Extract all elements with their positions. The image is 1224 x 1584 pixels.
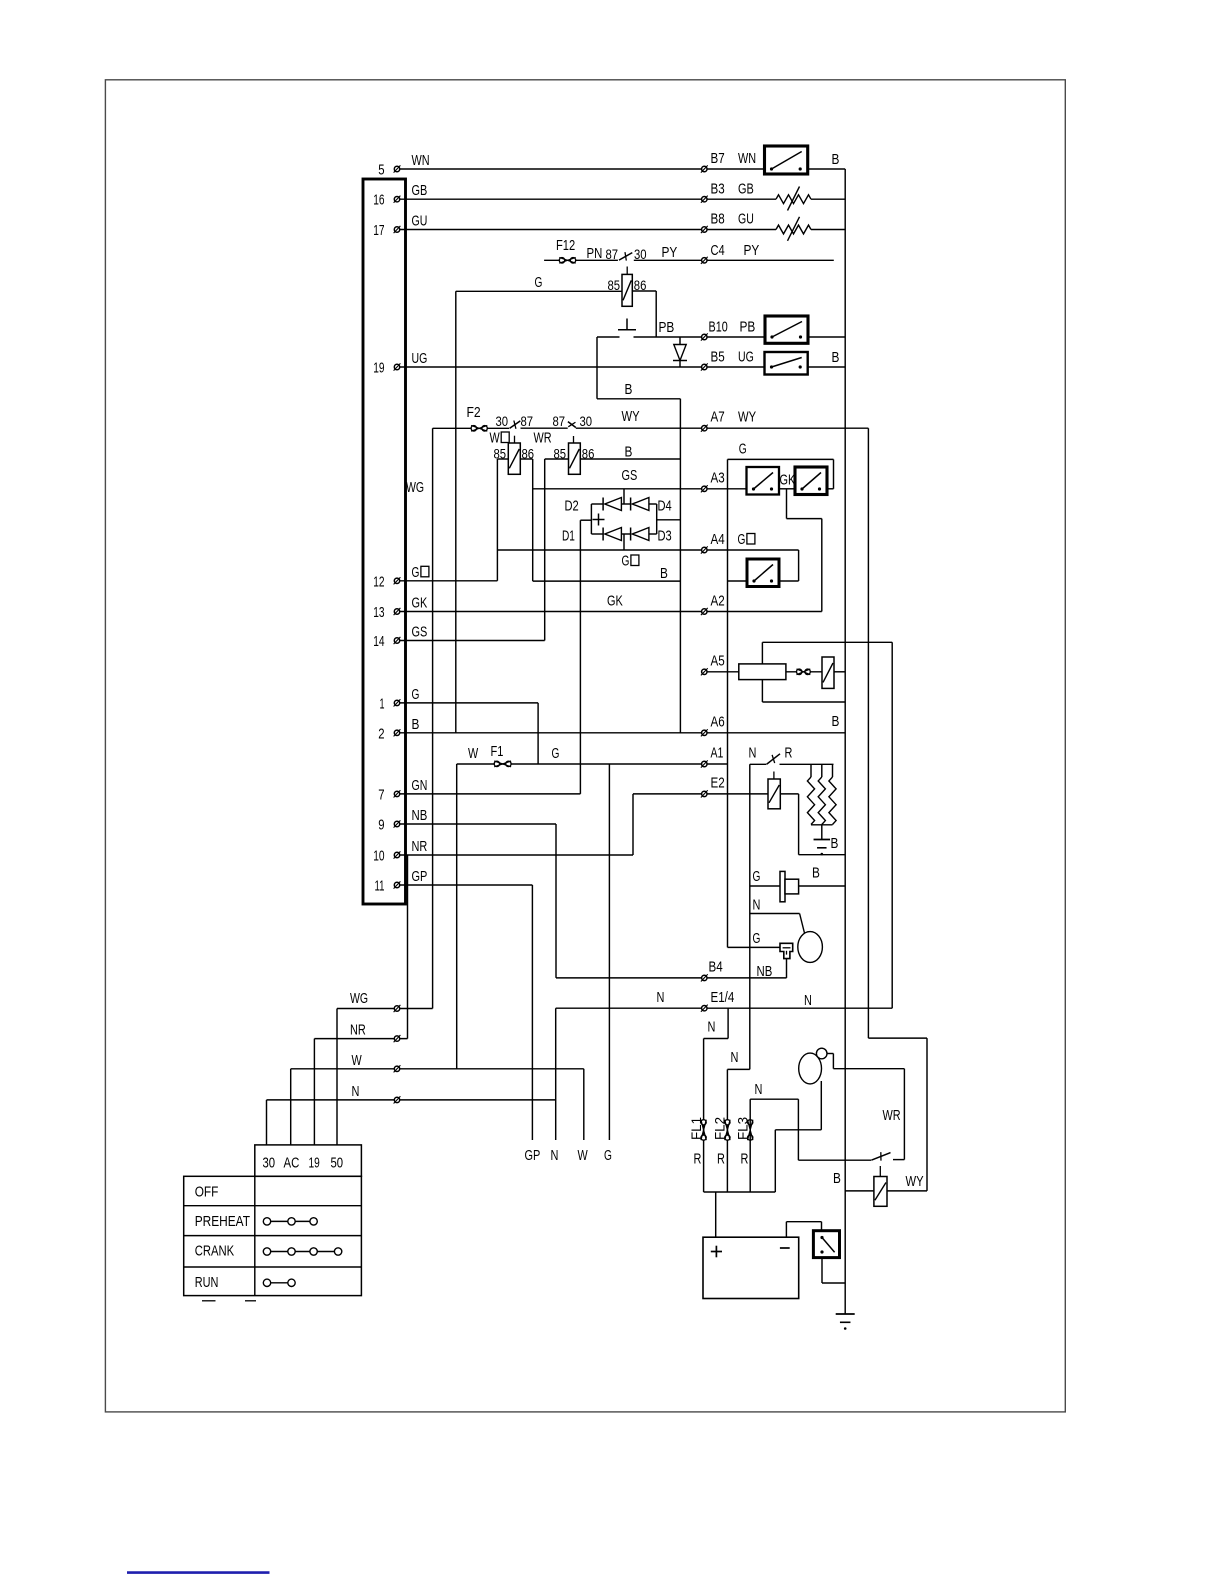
svg-text:W: W <box>352 1052 363 1069</box>
wire WG vertical F2 to key switch <box>406 428 433 1008</box>
svg-text:30: 30 <box>496 414 509 429</box>
svg-text:R: R <box>741 1151 749 1168</box>
svg-text:B4: B4 <box>709 959 723 976</box>
svg-text:GB: GB <box>412 182 428 199</box>
pin W bottom <box>394 1065 401 1072</box>
terminal B8 with label GU <box>701 211 754 234</box>
wire fuse bottom bus <box>704 1191 776 1193</box>
svg-text:CRANK: CRANK <box>195 1243 235 1260</box>
svg-text:PY: PY <box>662 244 678 261</box>
wire B4 row <box>556 977 787 979</box>
svg-text:R: R <box>785 745 793 762</box>
wire GP pin11 down to bottom <box>397 885 532 1140</box>
svg-text:G: G <box>738 531 746 548</box>
label GK between gauges <box>780 472 796 489</box>
svg-text:GK: GK <box>412 595 428 612</box>
svg-text:D3: D3 <box>658 528 672 545</box>
svg-text:D2: D2 <box>565 498 579 515</box>
svg-text:B7: B7 <box>711 150 725 167</box>
wire WG bottom row to key switch 50 <box>337 990 433 1145</box>
svg-text:RUN: RUN <box>195 1274 219 1291</box>
svg-text:R: R <box>717 1151 725 1168</box>
footer link line <box>127 1571 270 1574</box>
svg-text:30: 30 <box>263 1155 276 1172</box>
pin 14 of connector X1 <box>373 624 427 651</box>
svg-text:19: 19 <box>309 1155 320 1172</box>
svg-text:A7: A7 <box>711 409 725 426</box>
pin 11 of connector X1 <box>375 868 428 895</box>
variable resistor fuel sender GB <box>776 187 811 211</box>
fuse F12 <box>556 237 576 263</box>
svg-text:B5: B5 <box>711 349 725 366</box>
key position PREHEAT contacts <box>263 1218 317 1225</box>
bracket G supply for gauges <box>728 441 834 948</box>
pin 12 of connector X1 <box>373 573 400 590</box>
label GO left <box>622 553 639 570</box>
wire A1 vertical feed down to FL2 <box>727 764 749 1192</box>
diode PB <box>659 319 688 367</box>
svg-text:F1: F1 <box>491 743 504 760</box>
relay coil right of A5 fuse <box>822 657 834 688</box>
wire NR bottom row to key switch 19 <box>314 1022 407 1145</box>
junction A3 gauges to A2 row <box>787 489 822 612</box>
pin 7 of connector X1 <box>378 777 427 804</box>
fuse F1 <box>491 743 512 767</box>
wire GU pin17 to B8 with sender resistor <box>397 229 845 231</box>
wire starter to fuse bus <box>775 1081 821 1192</box>
gauge meter left on A3 row <box>747 467 780 495</box>
terminal B7 with label WN <box>701 150 840 173</box>
terminal A4 with label GO <box>701 531 755 554</box>
wire E2 row <box>633 794 845 855</box>
relay coil WY <box>833 1170 924 1206</box>
svg-text:B: B <box>625 444 633 461</box>
svg-text:GP: GP <box>525 1147 541 1164</box>
svg-text:UG: UG <box>738 349 754 366</box>
svg-text:50: 50 <box>331 1155 344 1172</box>
wire GB pin16 to B3 with sender resistor <box>397 198 845 200</box>
svg-text:NR: NR <box>350 1022 366 1039</box>
wire battery relay to ground bus <box>822 1258 845 1283</box>
svg-text:B: B <box>831 835 839 852</box>
terminal C4 with label PY <box>701 242 759 264</box>
wire UG pin19 to B5 <box>397 366 845 368</box>
svg-text:B: B <box>660 565 668 582</box>
svg-text:W: W <box>490 430 501 447</box>
svg-text:PN: PN <box>587 245 603 262</box>
wire A3 GS row to gauges <box>533 467 834 489</box>
svg-text:WR: WR <box>883 1107 901 1124</box>
table underline marks <box>202 1300 256 1302</box>
svg-text:GU: GU <box>738 211 754 228</box>
svg-text:B: B <box>812 865 820 882</box>
wire A5 unit bottom to B bus <box>762 680 845 702</box>
svg-text:FL2: FL2 <box>712 1117 728 1140</box>
pin 1 of connector X1 <box>380 686 420 713</box>
wire G to PN coil 85 <box>456 274 622 291</box>
key position RUN contacts <box>263 1279 295 1286</box>
wire A4 GO row <box>497 550 798 581</box>
wire WR coil 85 down to GS row <box>545 459 569 641</box>
terminal E2 <box>701 775 725 798</box>
pin 17 of connector X1 <box>373 213 427 240</box>
svg-text:N: N <box>749 745 757 762</box>
svg-text:A4: A4 <box>711 531 725 548</box>
wire N row to horn <box>750 897 805 934</box>
svg-text:GS: GS <box>412 624 428 641</box>
svg-text:A1: A1 <box>711 745 724 762</box>
resistor bank glow plugs <box>807 764 836 839</box>
svg-text:WY: WY <box>738 409 756 426</box>
svg-text:AC: AC <box>284 1155 300 1172</box>
svg-text:WG: WG <box>406 479 424 496</box>
svg-text:E1/4: E1/4 <box>711 989 735 1006</box>
svg-text:R: R <box>694 1151 702 1168</box>
battery relay contact <box>813 1231 839 1258</box>
bottom wire end labels GP N W G <box>525 1147 612 1164</box>
wire G bottom vertical from F1 row <box>608 764 610 1140</box>
svg-text:F2: F2 <box>467 404 481 421</box>
wire B elbow from B10 row to B vertical <box>597 337 680 399</box>
wire GN pin7 row <box>397 520 580 794</box>
terminal B5 with label UG <box>701 349 840 371</box>
wire G row to glow plug <box>750 865 845 887</box>
svg-text:A5: A5 <box>711 653 725 670</box>
diode D3 <box>631 528 672 545</box>
fuse FL3 <box>734 1117 753 1168</box>
svg-text:N: N <box>731 1049 739 1066</box>
svg-text:G: G <box>622 553 630 570</box>
wire E1/4 row <box>556 989 893 1009</box>
terminal A2 <box>701 593 725 616</box>
svg-text:N: N <box>657 989 665 1006</box>
svg-text:G: G <box>739 441 747 458</box>
svg-text:B: B <box>832 713 840 730</box>
svg-text:G: G <box>753 868 761 885</box>
wire WY coil left to B bus <box>845 1190 874 1192</box>
svg-text:G: G <box>412 686 420 703</box>
label Wsq relay <box>490 430 510 447</box>
terminal A1 <box>701 745 724 768</box>
relay WR coil 85-86 <box>554 443 595 474</box>
switch PB on B10 <box>765 316 808 343</box>
pin 5 of connector X1 <box>378 152 429 179</box>
svg-text:G: G <box>412 564 420 581</box>
svg-text:N: N <box>753 897 761 914</box>
svg-text:12: 12 <box>373 573 384 590</box>
svg-text:2: 2 <box>378 725 384 742</box>
glow plug symbol <box>780 871 799 901</box>
svg-text:C4: C4 <box>711 242 725 259</box>
svg-text:14: 14 <box>373 633 384 650</box>
pin 19 of connector X1 <box>373 350 427 377</box>
fuse F2 <box>467 404 488 431</box>
svg-text:N: N <box>551 1147 559 1164</box>
svg-text:WG: WG <box>350 990 368 1007</box>
wire PN/PY row to C4 <box>544 259 834 261</box>
wire E1/4 to FL1 <box>704 1008 729 1192</box>
horn body <box>798 932 823 963</box>
svg-text:N: N <box>352 1083 360 1100</box>
svg-text:D4: D4 <box>658 498 672 515</box>
pin 16 of connector X1 <box>373 182 427 209</box>
gauge meter GO <box>747 559 779 587</box>
wire B vertical mid <box>679 399 681 733</box>
svg-text:87: 87 <box>606 247 619 262</box>
svg-text:A3: A3 <box>711 470 725 487</box>
wire F1 row W to A1 <box>457 745 728 1069</box>
svg-text:A2: A2 <box>711 593 725 610</box>
wire G net vertical to B row <box>455 291 457 733</box>
svg-text:N: N <box>755 1081 763 1098</box>
wire N bottom row to key switch 30 <box>267 1083 556 1145</box>
svg-text:30: 30 <box>634 247 647 262</box>
terminal A3 <box>701 470 725 493</box>
contact PB normally-open <box>618 319 636 330</box>
B bus wire (ground return, right side) <box>844 169 846 1314</box>
ground at resistor bank <box>814 835 839 855</box>
svg-text:UG: UG <box>412 350 428 367</box>
wire WN pin5 to B7 <box>397 168 845 170</box>
pin N bottom <box>394 1096 401 1103</box>
terminal B3 with label GB <box>701 181 754 203</box>
svg-text:FL3: FL3 <box>734 1117 750 1140</box>
svg-text:A6: A6 <box>711 714 725 731</box>
svg-text:D1: D1 <box>562 528 575 545</box>
wire GS pin14 to WR coil <box>397 640 545 642</box>
contact WR starter relay <box>798 1107 904 1177</box>
svg-text:87: 87 <box>521 414 534 429</box>
svg-text:10: 10 <box>373 848 384 865</box>
variable resistor temp sender GU <box>776 217 811 241</box>
svg-text:9: 9 <box>378 817 384 834</box>
terminal E1/4 <box>701 989 734 1012</box>
svg-text:30: 30 <box>580 414 593 429</box>
pin 9 of connector X1 <box>378 807 427 834</box>
terminal A5 <box>701 653 725 676</box>
svg-text:WY: WY <box>622 408 640 425</box>
starter solenoid terminal <box>816 1048 827 1059</box>
pin WG bottom <box>394 1005 401 1012</box>
svg-text:OFF: OFF <box>195 1184 219 1201</box>
wire GK pin13 to A2 <box>397 593 822 612</box>
svg-text:B: B <box>832 349 840 366</box>
label N FL2 feed <box>731 1049 739 1066</box>
net label GO at pin 12 <box>412 564 429 581</box>
svg-text:B10: B10 <box>709 319 728 336</box>
wire GO pin12 row <box>397 580 497 582</box>
svg-text:GP: GP <box>412 868 428 885</box>
wire battery minus to relay contact <box>786 1222 821 1238</box>
diode D4 <box>631 498 672 515</box>
pin 13 of connector X1 <box>373 595 427 622</box>
pin 2 of connector X1 <box>378 716 419 743</box>
fuse FL1 <box>688 1117 707 1168</box>
diode D1 <box>562 528 621 545</box>
relay PN contact 87-30 <box>587 244 678 274</box>
wire PN coil 86 to B10 row <box>632 291 656 337</box>
wire horn plug stem to B4 <box>757 959 787 980</box>
relay Wsq coil 85-86 <box>494 443 535 474</box>
svg-text:G: G <box>753 930 761 947</box>
switch N-R glow controller <box>749 745 834 780</box>
terminal B10 with label PB <box>701 319 755 341</box>
svg-text:PREHEAT: PREHEAT <box>195 1213 250 1230</box>
svg-text:W: W <box>578 1147 589 1164</box>
svg-text:G: G <box>535 274 543 291</box>
terminal B4 <box>701 959 723 982</box>
terminal A7 with label WY <box>701 409 756 432</box>
svg-text:WY: WY <box>906 1173 924 1190</box>
wire Wsq coil 86 down to B row <box>520 459 532 581</box>
svg-text:PY: PY <box>744 242 760 259</box>
svg-text:WN: WN <box>738 150 756 167</box>
flasher unit coil on A5 <box>739 664 786 680</box>
fuse FL2 <box>712 1117 731 1168</box>
svg-text:PB: PB <box>740 319 756 336</box>
svg-text:NR: NR <box>412 838 428 855</box>
plus terminal of bridge <box>593 514 605 526</box>
svg-text:G: G <box>552 745 560 762</box>
wire NB pin9 to B4 row <box>397 824 556 978</box>
wire Wsq coil 85 down to GO row <box>497 459 508 581</box>
relay Wsq contact 30-87 <box>496 414 534 443</box>
wire WR coil 86 to B vertical <box>580 444 680 461</box>
svg-text:19: 19 <box>373 360 384 377</box>
terminal A6 <box>701 714 725 737</box>
svg-text:5: 5 <box>378 162 384 179</box>
svg-text:B3: B3 <box>711 181 725 198</box>
connector X1 main harness body <box>363 179 406 904</box>
svg-text:GK: GK <box>780 472 796 489</box>
starter motor body <box>799 1053 822 1084</box>
key position CRANK contacts <box>263 1248 342 1255</box>
svg-text:PB: PB <box>659 319 675 336</box>
wire starter loop to WR contact <box>827 1054 905 1160</box>
wire G pin1 down to F1 row <box>397 703 538 764</box>
wire B pin2 to A6 and B bus <box>397 713 845 733</box>
svg-text:WN: WN <box>412 152 430 169</box>
svg-text:GN: GN <box>412 777 428 794</box>
horn connector plug <box>780 943 793 958</box>
wire WY row F2 to A7 and down right side <box>433 408 927 1191</box>
svg-text:W: W <box>468 745 479 762</box>
svg-text:F12: F12 <box>556 237 575 254</box>
svg-text:G: G <box>604 1147 612 1164</box>
svg-text:GS: GS <box>622 467 638 484</box>
wire A5 unit top feed to E1/4 vertical <box>762 642 892 1008</box>
gauge meter GK on A3 row <box>795 467 827 495</box>
svg-text:GK: GK <box>607 593 623 610</box>
svg-text:N: N <box>804 992 812 1009</box>
svg-text:1: 1 <box>380 695 385 712</box>
svg-text:N: N <box>708 1019 716 1036</box>
relay WR contact 87-30 <box>534 414 593 447</box>
wire A5 row <box>704 671 845 673</box>
svg-text:GB: GB <box>738 181 754 198</box>
svg-text:7: 7 <box>378 786 384 803</box>
switch UG on B5 <box>765 352 808 375</box>
svg-text:B: B <box>412 716 420 733</box>
svg-text:13: 13 <box>373 604 384 621</box>
warning lamp switch WN on B7 <box>765 146 808 174</box>
diode bridge rails <box>580 489 680 550</box>
wire NR pin10 to E2 branch <box>397 794 633 1039</box>
svg-text:87: 87 <box>553 414 566 429</box>
svg-text:B: B <box>833 1170 841 1187</box>
diode D2 <box>565 498 622 515</box>
relay PN coil 85-86 <box>608 274 647 306</box>
wire W bottom row to key switch AC <box>291 1052 584 1145</box>
svg-text:17: 17 <box>373 222 384 239</box>
key switch table <box>184 1145 362 1296</box>
svg-text:11: 11 <box>375 878 385 895</box>
wire battery plus to fuse bus <box>715 1192 717 1237</box>
svg-text:WR: WR <box>534 430 552 447</box>
wire B short row to B vertical <box>533 565 681 582</box>
wire FL3 feed from starter contact <box>750 1081 798 1192</box>
svg-text:E2: E2 <box>711 775 725 792</box>
pin 10 of connector X1 <box>373 838 427 865</box>
battery <box>703 1237 799 1298</box>
pin NR bottom <box>394 1035 401 1042</box>
svg-text:FL1: FL1 <box>688 1117 704 1140</box>
svg-text:GU: GU <box>412 213 428 230</box>
relay coil E2 actuator <box>768 779 780 809</box>
svg-text:16: 16 <box>373 192 384 209</box>
wire N down to bottom label <box>555 1008 557 1140</box>
svg-text:B: B <box>832 151 840 168</box>
fuse on A5 branch <box>797 669 811 675</box>
svg-text:B: B <box>625 381 633 398</box>
main ground <box>836 1314 855 1330</box>
svg-text:NB: NB <box>412 807 428 824</box>
wire B10 row with pressure contact gap <box>597 336 845 338</box>
wire G row to horn plug <box>728 930 781 947</box>
svg-text:B8: B8 <box>711 211 725 228</box>
